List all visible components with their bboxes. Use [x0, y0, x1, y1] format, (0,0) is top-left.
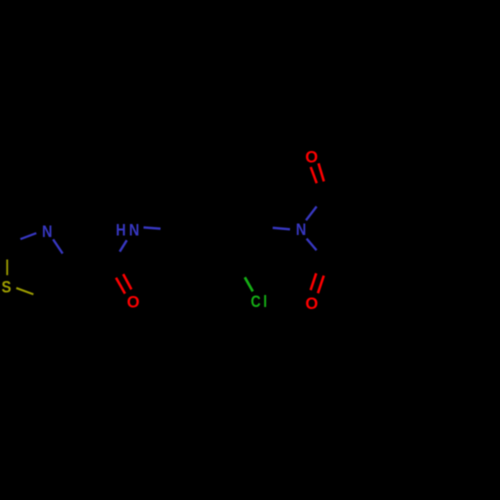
svg-text:O: O	[305, 147, 318, 166]
bond N3-C4 thiazole (blue half)	[53, 239, 63, 253]
imide top C=O double bond right line (red half)	[319, 163, 324, 181]
bond S1-C5 thiazole (yellow half)	[16, 288, 33, 294]
imide top C=O double bond left line (red half)	[311, 167, 317, 183]
svg-text:N: N	[296, 221, 306, 239]
bond aryl-N imide (blue half, horizontal)	[273, 228, 290, 230]
svg-text:N: N	[42, 223, 52, 241]
bond N-C3(=O) imide lower (blue half)	[307, 239, 317, 251]
imide bottom C=O double bond right line (red half)	[318, 276, 324, 294]
bond N-C1(=O) imide upper (blue half)	[306, 207, 317, 221]
svg-text:N: N	[129, 221, 139, 239]
amide C=O double bond inner line (red half)	[116, 278, 125, 294]
svg-text:O: O	[305, 294, 318, 313]
bond N3-C2 thiazole (blue half)	[20, 233, 36, 239]
bond N-C(=O) amide (blue half)	[120, 240, 127, 251]
bond C-Cl (green half)	[245, 277, 253, 291]
bond N-H amide to aryl (blue half, horizontal)	[144, 227, 161, 228]
bond S1-C2 thiazole (yellow half)	[6, 260, 8, 276]
svg-text:S: S	[2, 278, 12, 296]
svg-text:O: O	[127, 292, 140, 311]
svg-text:H: H	[116, 221, 126, 240]
amide C=O double bond outer line (red half)	[123, 274, 131, 289]
imide bottom C=O double bond left line (red half)	[311, 273, 317, 290]
svg-text:Cl: Cl	[251, 293, 270, 312]
